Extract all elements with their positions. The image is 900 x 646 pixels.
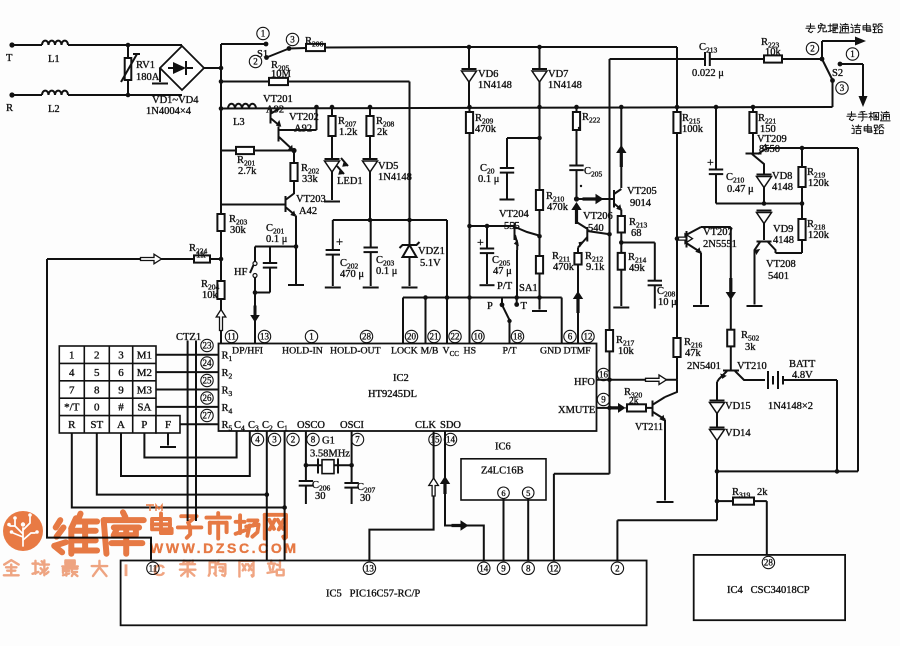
resistor R502 <box>727 330 734 347</box>
svg-text:14: 14 <box>446 435 456 445</box>
svg-text:VD5: VD5 <box>378 161 398 172</box>
transistor VT203 <box>285 196 287 212</box>
varistor RV1 <box>127 45 129 58</box>
svg-text:8: 8 <box>94 384 100 396</box>
svg-text:OSCO: OSCO <box>297 420 325 431</box>
svg-text:3: 3 <box>272 435 277 445</box>
wire pin6 drop <box>561 298 563 344</box>
wire CTZ1 line B <box>195 341 197 522</box>
node R203-R204 <box>219 257 224 262</box>
wire R215 riser <box>676 47 678 107</box>
node battery join <box>835 469 840 474</box>
node R205 left <box>219 79 224 84</box>
wire C1 column <box>284 431 286 561</box>
wire OSCO drop <box>305 431 307 481</box>
svg-text:9.1k: 9.1k <box>586 262 605 273</box>
diode VD7 <box>539 47 541 68</box>
node R207 top <box>330 105 335 110</box>
wire A to C3 <box>121 431 250 476</box>
svg-text:R: R <box>68 419 76 431</box>
wire key row3 to R3 <box>156 389 219 391</box>
pin 11 circ <box>225 330 237 342</box>
resistor R219 <box>801 148 803 167</box>
node HF rail right <box>294 244 299 249</box>
node VT204 collector <box>537 234 542 239</box>
wire mid rail <box>403 297 562 299</box>
node R213 bottom <box>619 240 624 245</box>
resistor R224 <box>161 258 194 260</box>
svg-text:M1: M1 <box>137 350 152 362</box>
wire S2-3 to bus <box>832 81 834 108</box>
svg-text:470k: 470k <box>553 262 575 273</box>
svg-text:G1: G1 <box>322 436 335 447</box>
wire R209 to HS <box>469 226 471 343</box>
svg-text:6: 6 <box>501 488 505 498</box>
svg-text:0.1 μ: 0.1 μ <box>266 234 288 245</box>
wire pin20 drop <box>402 298 404 344</box>
led LED1 <box>325 158 340 160</box>
node R211 bottom <box>537 295 542 300</box>
wire HFO <box>597 379 678 381</box>
svg-text:1: 1 <box>261 29 266 39</box>
svg-text:OSCI: OSCI <box>340 420 364 431</box>
node SA1 top <box>514 295 519 300</box>
resistor R223 <box>764 55 782 62</box>
svg-text:P/T: P/T <box>497 281 513 292</box>
svg-text:SA1: SA1 <box>519 283 538 294</box>
ic IC4 CSC34018CP box <box>694 555 845 620</box>
pin 2 circ <box>287 433 299 445</box>
wire VT205 collector <box>620 107 622 188</box>
capacitor C203 <box>370 220 372 248</box>
svg-text:L3: L3 <box>233 117 245 128</box>
svg-text:555: 555 <box>504 221 520 232</box>
svg-text:470k: 470k <box>547 202 569 213</box>
arrow up DTMF node <box>571 202 581 224</box>
arrow into pin11 <box>216 310 226 331</box>
svg-text:RV1: RV1 <box>136 60 155 71</box>
svg-text:2: 2 <box>94 350 100 362</box>
wire HF top rail <box>255 246 296 248</box>
svg-text:VD8: VD8 <box>772 171 792 182</box>
node RV1 top <box>126 43 131 48</box>
capacitor C207 <box>344 482 358 484</box>
svg-text:28: 28 <box>362 332 372 342</box>
node VD5 bottom <box>368 218 373 223</box>
svg-text:11: 11 <box>227 332 236 342</box>
node Vcc cross <box>445 295 450 300</box>
svg-text:VT206: VT206 <box>583 211 613 222</box>
terminal T <box>9 42 14 47</box>
wire key row1 to R1 <box>156 354 219 356</box>
svg-text:VT210: VT210 <box>737 361 767 372</box>
capacitor C20 <box>500 167 514 169</box>
node HS cross <box>467 295 472 300</box>
capacitor C208 <box>648 280 662 282</box>
wire R to C1 <box>72 433 285 508</box>
svg-text:9: 9 <box>501 564 506 574</box>
node XMUTE <box>607 406 612 411</box>
node R209 top <box>467 105 472 110</box>
capacitor C202 <box>332 220 334 250</box>
wire pin13 line <box>254 293 256 344</box>
pin 8 circ <box>307 433 319 445</box>
node C20 <box>537 136 542 141</box>
svg-text:0.1 μ: 0.1 μ <box>376 266 398 277</box>
ground VT207 <box>700 253 702 305</box>
wire XMUTE <box>597 407 612 409</box>
svg-text:4: 4 <box>69 367 75 379</box>
label to-handset-circuit <box>847 112 856 121</box>
svg-text:0.1 μ: 0.1 μ <box>478 174 500 185</box>
wire CTZ1 line A <box>187 341 189 522</box>
wire VT203 base <box>221 204 286 206</box>
svg-text:47k: 47k <box>685 348 702 359</box>
ground key F <box>167 433 169 446</box>
wire OSCI drop <box>351 431 353 483</box>
resistor R203 <box>220 205 222 215</box>
svg-text:S1: S1 <box>257 49 268 60</box>
wire P to C4 <box>144 431 236 458</box>
node VD6 top <box>467 45 472 50</box>
svg-text:SDO: SDO <box>440 420 461 431</box>
svg-text:3.58MHz: 3.58MHz <box>310 449 350 460</box>
resistor R202 <box>293 151 295 164</box>
svg-text:M3: M3 <box>137 384 153 396</box>
svg-text:13: 13 <box>365 564 375 574</box>
switch S1 <box>264 42 269 47</box>
arrow XMUTE <box>611 403 626 413</box>
arrow into pin12 <box>573 291 583 313</box>
svg-text:16: 16 <box>599 370 609 380</box>
svg-text:28: 28 <box>764 558 774 568</box>
node L3 in <box>219 106 224 111</box>
wire IC6p5 to IC5 <box>527 499 529 561</box>
pin 23 circ <box>201 339 213 351</box>
capacitor C210 <box>715 107 717 170</box>
pin 14 circ <box>444 433 456 445</box>
svg-text:9: 9 <box>601 395 606 405</box>
resistor R210 <box>536 190 543 210</box>
wire R205 down <box>409 82 411 221</box>
node R215 top <box>675 105 680 110</box>
resistor R207 <box>331 107 333 116</box>
svg-text:VD1~VD4: VD1~VD4 <box>152 95 199 106</box>
node VD8 bottom <box>762 201 767 206</box>
svg-text:IC4 CSC34018CP: IC4 CSC34018CP <box>727 585 810 596</box>
arrow CLK <box>429 478 439 496</box>
transistor VT205 <box>613 190 615 208</box>
wire battery right drop <box>836 380 838 471</box>
wire Vcc column <box>446 220 448 343</box>
svg-text:21: 21 <box>430 332 439 342</box>
ground R211 <box>539 298 541 310</box>
svg-text:1N4004×4: 1N4004×4 <box>146 106 192 117</box>
resistor R222 <box>576 107 578 112</box>
svg-text:0: 0 <box>94 402 100 414</box>
svg-text:M/B: M/B <box>421 346 439 357</box>
wire pin21 drop <box>425 298 427 344</box>
wire vd rail <box>716 203 802 205</box>
transistor VT201 <box>270 110 272 124</box>
svg-text:HT9245DL: HT9245DL <box>368 389 417 400</box>
node OSCI <box>349 463 354 468</box>
svg-text:30: 30 <box>315 491 326 502</box>
pin 1 circ <box>305 330 317 342</box>
node VD7 top <box>537 45 542 50</box>
pin 12 circ <box>582 330 594 342</box>
svg-text:8550: 8550 <box>759 144 780 155</box>
svg-text:1N4148×2: 1N4148×2 <box>768 401 813 412</box>
svg-text:XMUTE: XMUTE <box>558 405 595 416</box>
arrow VT207 base <box>677 238 687 240</box>
wire ST to C2 <box>97 433 267 495</box>
node VT202 emitter <box>291 148 296 153</box>
capacitor C205 <box>569 165 583 167</box>
svg-text:6: 6 <box>118 367 124 379</box>
pin 18 circ <box>511 330 523 342</box>
IC5 pin 13 circ <box>363 562 375 574</box>
arrow to VT205 base <box>583 194 604 204</box>
resistor R212 <box>577 248 579 254</box>
svg-text:2: 2 <box>810 44 815 54</box>
node VT205 top <box>619 105 624 110</box>
svg-text:10: 10 <box>474 332 484 342</box>
svg-text:A: A <box>117 419 125 431</box>
wire to handsfree arrow <box>821 41 823 59</box>
node R218 top <box>800 201 805 206</box>
wire crystal link <box>306 464 352 466</box>
pin 10 circ <box>472 330 484 342</box>
pin 21 circ <box>428 330 440 342</box>
switch S2 <box>820 57 825 62</box>
inductor L1 <box>42 41 49 45</box>
watermark logo circle <box>3 511 43 551</box>
diode VD14 <box>716 413 718 427</box>
resistor R211 <box>539 236 541 256</box>
svg-text:S2: S2 <box>832 68 843 79</box>
svg-text:4148: 4148 <box>773 235 794 246</box>
svg-text:+: + <box>336 235 343 249</box>
svg-text:VD14: VD14 <box>725 428 751 439</box>
svg-text:8: 8 <box>526 564 531 574</box>
svg-text:HOLD-IN: HOLD-IN <box>282 346 323 357</box>
svg-text:120k: 120k <box>808 178 830 189</box>
svg-text:12: 12 <box>584 332 593 342</box>
wire VD7 to R210 <box>539 81 541 190</box>
arrow SDO up <box>440 476 450 494</box>
pin 24 circ <box>201 357 213 369</box>
svg-text:1N4148: 1N4148 <box>548 80 582 91</box>
svg-text:VT211: VT211 <box>635 422 663 433</box>
inductor L3 <box>228 104 235 109</box>
battery BATT 4.8V <box>753 379 765 381</box>
svg-text:4: 4 <box>255 435 260 445</box>
pin 27 circ <box>201 409 213 421</box>
arrow into pin13 <box>250 306 260 323</box>
svg-text:1N4148: 1N4148 <box>378 172 412 183</box>
svg-text:1k: 1k <box>196 251 206 261</box>
svg-text:120k: 120k <box>808 230 830 241</box>
svg-text:49k: 49k <box>629 263 646 274</box>
resistor R221 <box>752 107 754 112</box>
IC5 pin 8 circ <box>522 562 534 574</box>
wire VT204 base <box>470 225 515 227</box>
svg-text:L2: L2 <box>48 104 60 115</box>
svg-text:Z4LC16B: Z4LC16B <box>481 466 524 477</box>
wire VT211 collector <box>665 380 677 397</box>
svg-text:2k: 2k <box>629 397 639 407</box>
resistor R206 <box>289 47 306 50</box>
switch SA1 T contact <box>516 298 518 303</box>
svg-text:2N5401: 2N5401 <box>687 361 721 372</box>
svg-text:P: P <box>487 301 493 312</box>
svg-text:VD6: VD6 <box>478 69 498 80</box>
svg-text:25: 25 <box>203 376 213 386</box>
pin 15 circ <box>429 433 441 445</box>
wire HF bottom rail <box>255 292 270 294</box>
svg-text:LOCK: LOCK <box>391 346 418 357</box>
transistor VT206 <box>577 222 587 229</box>
node RV1 bottom <box>126 93 131 98</box>
resistor R201 <box>221 150 236 152</box>
wire key row4 to R4 <box>156 406 219 408</box>
wire left column mid <box>220 151 222 205</box>
wire to VT205 base <box>577 198 614 200</box>
resistor R319 <box>717 500 733 502</box>
wire VT208 collector <box>776 252 803 254</box>
svg-text:2k: 2k <box>377 127 388 138</box>
pin 5 of IC6 <box>522 487 534 499</box>
IC5 pin 9 circ <box>497 562 509 574</box>
svg-text:5.1V: 5.1V <box>420 258 441 269</box>
bridge rectifier VD1-VD4 <box>160 46 204 90</box>
node OSCO <box>304 463 309 468</box>
diode VD6 <box>468 47 470 68</box>
svg-text:24: 24 <box>203 358 213 368</box>
svg-text:DP/HFI: DP/HFI <box>232 346 263 357</box>
arrow HFO <box>646 375 667 385</box>
pin 6 circ <box>564 330 576 342</box>
resistor R204 <box>217 281 224 299</box>
svg-text:5401: 5401 <box>768 271 789 282</box>
pin 26 circ <box>201 392 213 404</box>
svg-text:HFO: HFO <box>574 377 595 388</box>
pin 3 circ <box>268 433 280 445</box>
inductor L2 <box>42 91 49 95</box>
node R319 tap <box>715 499 720 504</box>
svg-text:BATT: BATT <box>789 359 816 370</box>
svg-text:VT208: VT208 <box>766 259 796 270</box>
ground VT211 <box>664 420 666 501</box>
pin 6 of IC6 <box>498 487 510 499</box>
svg-text:A92: A92 <box>266 105 284 116</box>
wire VT207 collector <box>701 226 731 228</box>
resistor R208 <box>369 107 371 116</box>
switch SA1 P contact <box>501 298 503 304</box>
svg-text:4.8V: 4.8V <box>792 370 813 381</box>
svg-text:5: 5 <box>94 367 100 379</box>
switch SA1 lever <box>502 305 510 320</box>
watermark weiku big <box>54 514 97 554</box>
svg-text:180A: 180A <box>136 72 160 83</box>
node C205b top <box>485 224 490 229</box>
IC5 pin 2 circ <box>611 562 623 574</box>
wire C213 line <box>610 58 706 60</box>
label to-handsfree-circuit <box>806 24 815 33</box>
svg-text:12: 12 <box>549 564 558 574</box>
svg-text:33k: 33k <box>302 174 319 185</box>
diode VD15 <box>716 382 718 400</box>
svg-text:T: T <box>6 53 13 64</box>
IC5 pin 12 circ <box>548 562 560 574</box>
wire DTMF out riser <box>609 59 611 234</box>
IC4 pin 28 circ <box>762 556 774 568</box>
svg-text:68: 68 <box>631 228 642 239</box>
resistor R213 <box>620 210 622 217</box>
wire VT209 emitter rail <box>768 147 859 149</box>
svg-text:47 μ: 47 μ <box>493 266 512 277</box>
svg-text:27: 27 <box>203 411 213 421</box>
pin 20 circ <box>405 330 417 342</box>
svg-text:2: 2 <box>615 564 620 574</box>
node R222 top <box>574 105 579 110</box>
transistor VT210 <box>723 370 739 372</box>
wire R224 line <box>47 258 141 260</box>
watermark dianzishichangwang <box>152 513 172 533</box>
wire key row2 to R2 <box>156 371 219 373</box>
svg-text:+: + <box>707 155 714 169</box>
svg-text:#: # <box>118 402 124 414</box>
svg-text:3: 3 <box>290 35 295 45</box>
svg-text:VT207: VT207 <box>703 227 733 238</box>
pin 22 circ <box>449 330 461 342</box>
svg-text:30: 30 <box>360 493 371 504</box>
wire top rail <box>469 46 677 48</box>
svg-text:2: 2 <box>291 435 296 445</box>
svg-text:540: 540 <box>588 223 604 234</box>
svg-text:22: 22 <box>451 332 460 342</box>
svg-text:0.47 μ: 0.47 μ <box>727 184 754 195</box>
svg-text:1: 1 <box>309 332 314 342</box>
svg-text:6: 6 <box>568 332 573 342</box>
svg-text:10k: 10k <box>202 290 219 301</box>
node pin21 <box>423 295 428 300</box>
svg-text:0.022 μ: 0.022 μ <box>692 68 724 79</box>
svg-text:VT205: VT205 <box>627 186 657 197</box>
wire bottom right rail <box>717 470 858 472</box>
svg-text:A92: A92 <box>294 124 312 135</box>
svg-text:14: 14 <box>479 564 489 574</box>
svg-text:R: R <box>6 103 13 114</box>
svg-text:C: C <box>153 561 165 580</box>
svg-text:P: P <box>141 419 147 431</box>
ground below bridge <box>159 68 161 82</box>
svg-text:1: 1 <box>69 350 75 362</box>
arrow up VT205 <box>616 145 626 167</box>
crystal G1 <box>317 459 319 474</box>
svg-text:LED1: LED1 <box>337 176 363 187</box>
resistor R209 <box>469 107 471 112</box>
svg-text:30k: 30k <box>230 225 247 236</box>
wire T line <box>12 44 42 46</box>
svg-text:5: 5 <box>526 488 530 498</box>
keypad CTZ1 matrix <box>59 346 180 433</box>
svg-text:SA: SA <box>137 402 151 414</box>
svg-text:26: 26 <box>203 393 213 403</box>
IC5 pin 14 circ <box>478 562 490 574</box>
wire R319 to IC4 <box>766 501 768 555</box>
